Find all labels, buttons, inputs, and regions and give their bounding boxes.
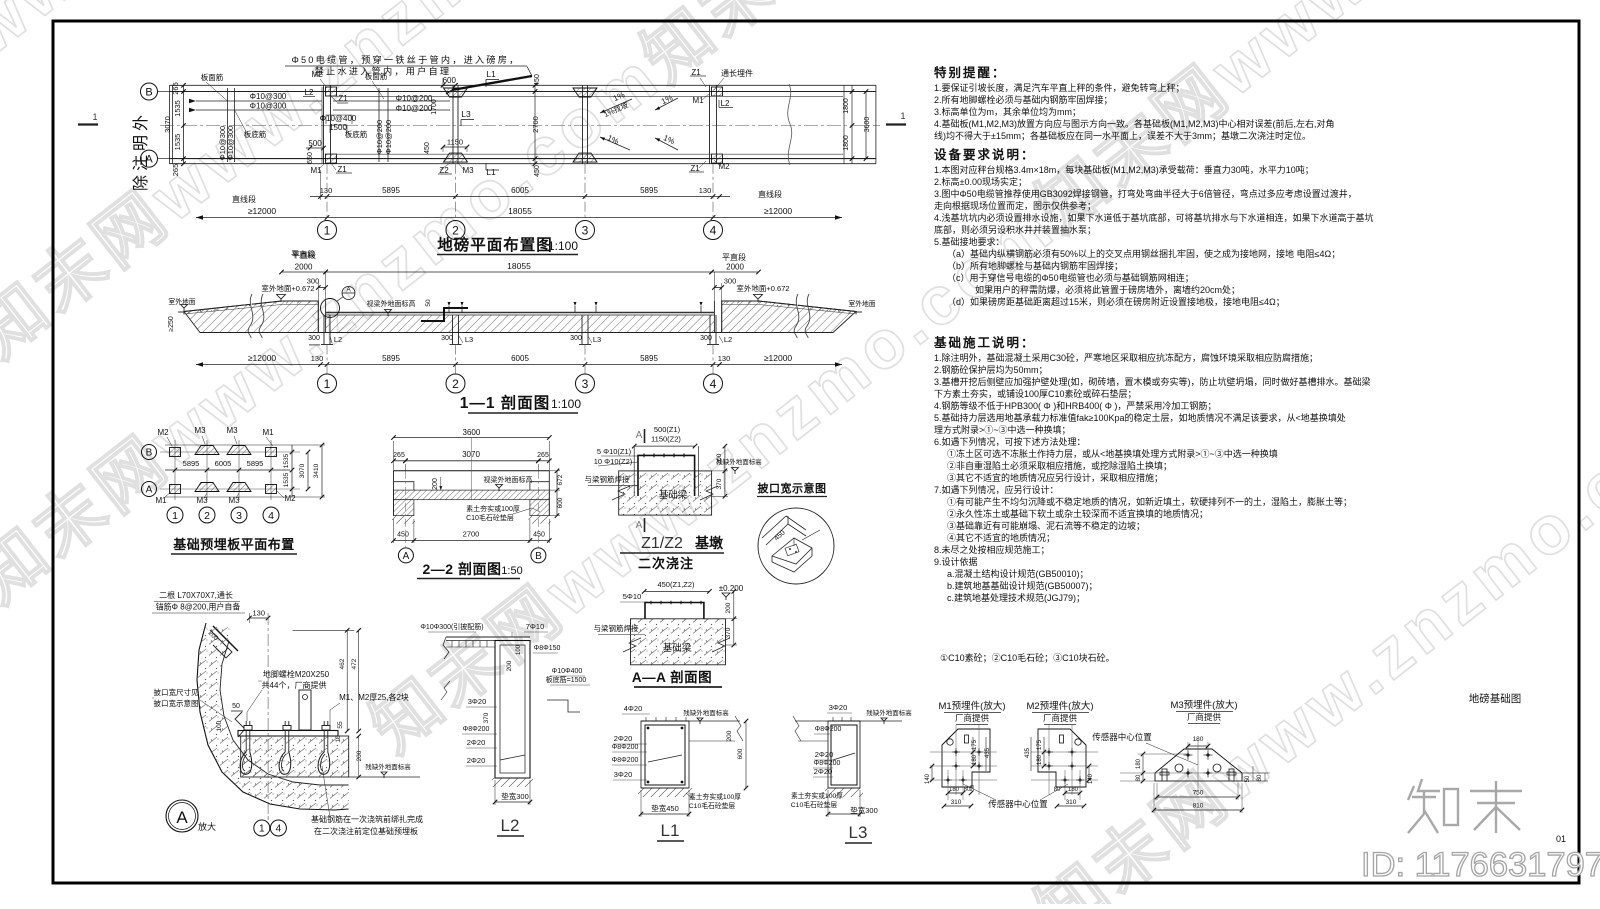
svg-text:1:50: 1:50 <box>501 565 522 577</box>
svg-text:3Φ20: 3Φ20 <box>614 770 633 779</box>
right ramp break lines <box>794 294 799 338</box>
svg-text:③其它不适宜的地质情况应另行设计，采取相应措施；: ③其它不适宜的地质情况应另行设计，采取相应措施； <box>947 472 1163 483</box>
svg-text:370: 370 <box>716 478 723 489</box>
svg-text:265: 265 <box>171 164 180 177</box>
svg-text:18055: 18055 <box>507 261 531 271</box>
svg-text:ID: 1176631797: ID: 1176631797 <box>1361 846 1600 884</box>
svg-text:M2预埋件(放大): M2预埋件(放大) <box>1026 700 1093 712</box>
svg-text:450: 450 <box>424 142 431 154</box>
svg-text:180: 180 <box>949 787 960 793</box>
svg-text:Φ10@300: Φ10@300 <box>226 126 235 160</box>
svg-text:残缺外地面标高: 残缺外地面标高 <box>365 762 411 771</box>
svg-text:200: 200 <box>726 730 733 741</box>
svg-text:走向根据现场位置而定，图示仅供参考；: 走向根据现场位置而定，图示仅供参考； <box>934 200 1096 211</box>
svg-text:视梁外地面标高: 视梁外地面标高 <box>484 475 533 484</box>
svg-text:底部，则必须另设积水井并装置抽水泵；: 底部，则必须另设积水井并装置抽水泵； <box>934 224 1096 235</box>
svg-text:130: 130 <box>252 609 265 618</box>
svg-text:5895: 5895 <box>247 459 264 468</box>
svg-text:C10毛石砼垫层: C10毛石砼垫层 <box>466 513 514 522</box>
svg-text:18055: 18055 <box>508 206 532 216</box>
svg-text:在二次浇注前定位基础预埋板: 在二次浇注前定位基础预埋板 <box>314 826 418 836</box>
svg-text:Z1: Z1 <box>338 94 348 103</box>
detail A 130 dim <box>249 617 268 619</box>
axis 1 cross beam <box>323 85 325 163</box>
svg-text:3070: 3070 <box>163 116 172 133</box>
svg-text:二次浇注: 二次浇注 <box>638 556 694 571</box>
right ramp <box>722 301 856 333</box>
2-2 bottom dim 450 2700 450 <box>394 540 550 542</box>
svg-text:50: 50 <box>232 703 240 710</box>
svg-text:50: 50 <box>1245 775 1251 782</box>
svg-text:基墩: 基墩 <box>695 535 724 551</box>
svg-text:L2: L2 <box>721 99 730 108</box>
svg-text:5895: 5895 <box>382 186 400 195</box>
svg-text:Φ10@400: Φ10@400 <box>320 114 357 123</box>
left ramp <box>184 301 318 333</box>
notch sketch 3d corner <box>762 516 806 538</box>
svg-text:1: 1 <box>259 824 265 835</box>
M3 bolt slots <box>1162 769 1167 781</box>
svg-text:M3: M3 <box>462 166 474 175</box>
right ramp surface concrete band <box>722 301 856 314</box>
svg-text:472: 472 <box>351 658 358 669</box>
svg-text:4: 4 <box>276 824 282 835</box>
svg-text:10: 10 <box>336 735 342 742</box>
svg-text:3Φ20: 3Φ20 <box>829 703 848 712</box>
M3 plate holes <box>1175 764 1183 772</box>
section cut marker 1 right <box>886 123 906 125</box>
svg-text:1150: 1150 <box>447 138 463 147</box>
plan bottom dim row1 <box>310 196 730 198</box>
axis 4 cross beam <box>709 85 711 163</box>
plate M3 axis2 top <box>444 88 468 97</box>
svg-text:通长埋件: 通长埋件 <box>721 68 753 78</box>
svg-text:Φ10@200: Φ10@200 <box>375 120 384 154</box>
svg-text:①C10素砼；②C10毛石砼；③C10块石砼。: ①C10素砼；②C10毛石砼；③C10块石砼。 <box>940 652 1115 663</box>
svg-text:L2: L2 <box>334 335 342 344</box>
svg-text:A—A 剖面图: A—A 剖面图 <box>632 669 712 685</box>
svg-text:≥250: ≥250 <box>168 316 175 332</box>
svg-text:（a）基础内纵横钢筋必须有50%以上的交叉点用钢丝捆扎牢固，: （a）基础内纵横钢筋必须有50%以上的交叉点用钢丝捆扎牢固，使之成为接地网，接地… <box>947 248 1340 259</box>
svg-text:Φ10@300: Φ10@300 <box>250 102 287 111</box>
svg-text:M2: M2 <box>284 494 296 503</box>
svg-text:Φ10@200: Φ10@200 <box>384 120 393 154</box>
svg-text:200: 200 <box>725 602 732 613</box>
svg-text:100: 100 <box>516 644 522 655</box>
M3 left dims 180 80 <box>1142 754 1144 781</box>
svg-text:5895: 5895 <box>183 459 200 468</box>
svg-text:M3: M3 <box>194 426 206 435</box>
svg-text:1: 1 <box>324 223 331 237</box>
svg-text:Φ10Φ400: Φ10Φ400 <box>552 668 583 675</box>
svg-text:175: 175 <box>972 739 978 750</box>
svg-text:4.钢筋等级不低于HPB300( Φ )和HRB400( Φ: 4.钢筋等级不低于HPB300( Φ )和HRB400( Φ )，严禁采用冷加工… <box>934 400 1216 411</box>
plate M3 axis3 bottom <box>573 153 597 162</box>
M3 bolt cross marks <box>1184 754 1193 756</box>
svg-text:A: A <box>146 485 153 496</box>
svg-text:C10毛石砼垫层: C10毛石砼垫层 <box>689 801 736 810</box>
svg-text:2Φ20: 2Φ20 <box>614 734 633 743</box>
svg-text:≥12000: ≥12000 <box>764 206 793 216</box>
svg-text:3Φ20: 3Φ20 <box>468 697 487 706</box>
plate plan right dims <box>291 445 293 497</box>
svg-text:③基础靠近有可能崩塌、泥石流等不稳定的边坡；: ③基础靠近有可能崩塌、泥石流等不稳定的边坡； <box>947 520 1145 531</box>
svg-text:130: 130 <box>311 354 324 363</box>
M2 centerlines <box>1031 751 1098 753</box>
svg-text:3600: 3600 <box>864 117 871 133</box>
2-2 soil under piers <box>392 516 415 524</box>
svg-text:Z1/Z2: Z1/Z2 <box>641 535 683 552</box>
svg-text:L2: L2 <box>724 335 732 344</box>
svg-text:130: 130 <box>320 186 333 195</box>
svg-text:9.设计依据: 9.设计依据 <box>934 556 978 567</box>
L2 wall <box>495 641 530 779</box>
svg-text:4Φ20: 4Φ20 <box>624 704 643 713</box>
svg-text:2700: 2700 <box>531 116 540 133</box>
svg-text:地脚螺栓M20X250: 地脚螺栓M20X250 <box>263 669 330 679</box>
svg-text:基础钢筋在一次浇筑前绑扎完成: 基础钢筋在一次浇筑前绑扎完成 <box>311 814 423 824</box>
rebar vertical lines panel1 <box>227 88 229 162</box>
svg-text:A: A <box>636 520 643 531</box>
svg-text:L2: L2 <box>501 816 520 835</box>
svg-text:4.浅基坑坑内必须设置排水设施，如果下水道低于基坑底部，可将: 4.浅基坑坑内必须设置排水设施，如果下水道低于基坑底部，可将基坑排水与下水道相连… <box>934 212 1374 223</box>
axis bubbles 1-4 plan <box>326 164 328 221</box>
section 300 dim left <box>318 287 325 289</box>
svg-text:B: B <box>145 86 152 98</box>
svg-text:传感器中心位置: 传感器中心位置 <box>988 799 1048 809</box>
svg-text:基础预埋板平面布置: 基础预埋板平面布置 <box>172 537 295 552</box>
svg-text:450(Z1,Z2): 450(Z1,Z2) <box>657 580 695 589</box>
detail A anchor bolts <box>245 721 247 752</box>
svg-text:1: 1 <box>900 111 905 121</box>
svg-text:180: 180 <box>1193 736 1204 743</box>
detail A right dims <box>293 629 355 631</box>
L3 bottom dim <box>828 813 860 815</box>
svg-text:M3: M3 <box>226 426 238 435</box>
axis B circle <box>141 83 158 100</box>
svg-text:5895: 5895 <box>640 354 658 363</box>
svg-text:M2: M2 <box>157 428 169 437</box>
anchor ticks on slab <box>448 306 450 313</box>
M3 top dim 180 <box>1188 745 1208 747</box>
svg-text:Φ10@200: Φ10@200 <box>396 104 433 113</box>
svg-text:80: 80 <box>1257 774 1263 781</box>
svg-text:2: 2 <box>204 510 210 522</box>
foundation bottom line <box>200 332 833 334</box>
plan bottom dim row2 <box>196 217 842 219</box>
svg-text:设备要求说明：: 设备要求说明： <box>934 147 1036 162</box>
svg-text:共44个，厂商提供: 共44个，厂商提供 <box>262 680 327 690</box>
svg-text:≥12000: ≥12000 <box>248 353 277 363</box>
svg-text:M1: M1 <box>262 428 274 437</box>
svg-text:与梁钢筋焊接: 与梁钢筋焊接 <box>594 623 639 633</box>
plan left dimension 265 1535 1535 265 <box>183 85 185 163</box>
svg-text:300: 300 <box>724 277 737 286</box>
svg-text:视梁外地面标高: 视梁外地面标高 <box>367 299 416 308</box>
slope arrows 1% panel3-4 <box>600 99 632 113</box>
detail A bubble on section <box>342 287 355 300</box>
svg-text:a.混凝土结构设计规范(GB50010)；: a.混凝土结构设计规范(GB50010)； <box>947 568 1089 579</box>
2-2 top dim 3600 <box>394 437 550 439</box>
svg-text:Φ8Φ150: Φ8Φ150 <box>534 645 561 652</box>
svg-text:地磅基础图: 地磅基础图 <box>1469 692 1522 705</box>
detail A anchor plate <box>238 731 338 737</box>
svg-text:披口宽示意图: 披口宽示意图 <box>758 481 827 495</box>
svg-text:厂商提供: 厂商提供 <box>955 713 990 723</box>
svg-text:180: 180 <box>1037 754 1043 765</box>
svg-text:1.要保证引坡长度，满足汽车平直上秤的条件，避免转弯上秤；: 1.要保证引坡长度，满足汽车平直上秤的条件，避免转弯上秤； <box>934 82 1185 93</box>
svg-text:1:100: 1:100 <box>551 397 581 411</box>
detail A wall hatch <box>197 623 349 809</box>
2-2 piers hatched <box>394 500 414 516</box>
svg-text:600: 600 <box>737 748 744 759</box>
svg-text:垫宽300: 垫宽300 <box>501 791 529 801</box>
svg-text:750: 750 <box>1193 790 1204 797</box>
svg-text:3.标高单位为m，其余单位均为mm；: 3.标高单位为m，其余单位均为mm； <box>934 106 1081 117</box>
svg-text:100: 100 <box>216 720 223 731</box>
plate plan grid <box>174 440 176 500</box>
svg-text:板底筋=1500: 板底筋=1500 <box>546 675 587 684</box>
svg-text:L1: L1 <box>661 821 680 840</box>
2-2 hatched band <box>394 490 550 500</box>
svg-text:L2: L2 <box>305 88 314 97</box>
svg-text:M3预埋件(放大): M3预埋件(放大) <box>1170 699 1237 711</box>
svg-text:3410: 3410 <box>313 463 320 478</box>
2-2 inner steps <box>394 482 414 490</box>
svg-text:300: 300 <box>308 335 320 342</box>
svg-text:500(Z1): 500(Z1) <box>654 425 681 434</box>
svg-text:2: 2 <box>452 223 459 237</box>
M3 plate outline <box>1155 749 1242 781</box>
Z1Z2 pedestal sides <box>633 446 635 496</box>
svg-text:650: 650 <box>307 152 314 164</box>
svg-text:与梁钢筋焊接: 与梁钢筋焊接 <box>585 474 630 484</box>
A-A 370 dim <box>733 619 735 645</box>
detail A center line <box>267 613 269 816</box>
svg-text:b.建筑地基基础设计规范(GB50007)；: b.建筑地基基础设计规范(GB50007)； <box>947 580 1098 591</box>
svg-text:3.基槽开挖后侧壁应加强护壁处理(如，砌砖墙，置木模或夯实等: 3.基槽开挖后侧壁应加强护壁处理(如，砌砖墙，置木模或夯实等)，防止坑壁坍塌，同… <box>934 376 1371 387</box>
svg-text:3.图中Φ50电缆管推荐使用GB3092焊接钢管，打弯处弯曲: 3.图中Φ50电缆管推荐使用GB3092焊接钢管，打弯处弯曲半径大于6倍管径，弯… <box>934 188 1357 199</box>
svg-text:175: 175 <box>1037 739 1043 750</box>
plate plan plates row B <box>170 448 181 457</box>
svg-text:基础梁: 基础梁 <box>659 489 688 501</box>
svg-text:±0.200: ±0.200 <box>719 584 744 593</box>
svg-text:265: 265 <box>537 452 549 459</box>
svg-text:L1: L1 <box>486 167 496 177</box>
M2 plate holes and marks <box>1075 739 1081 745</box>
svg-text:450: 450 <box>534 165 541 177</box>
svg-text:8.未尽之处按相应规范施工；: 8.未尽之处按相应规范施工； <box>934 544 1050 555</box>
svg-text:M2: M2 <box>718 162 730 171</box>
svg-text:6005: 6005 <box>511 186 529 195</box>
svg-text:（b）所有地脚螺栓与基础内钢筋牢固焊接；: （b）所有地脚螺栓与基础内钢筋牢固焊接； <box>947 260 1123 271</box>
svg-text:A: A <box>636 430 643 441</box>
Z1Z2 break marks <box>612 486 630 500</box>
svg-text:2Φ20: 2Φ20 <box>815 750 834 759</box>
svg-text:6.如遇下列情况，可按下述方法处理：: 6.如遇下列情况，可按下述方法处理： <box>934 436 1086 447</box>
svg-text:462: 462 <box>339 658 346 669</box>
detail A concrete block <box>241 736 349 777</box>
svg-text:直线段: 直线段 <box>758 189 782 199</box>
rebar line top panel1 <box>196 100 322 102</box>
2-2 outline <box>394 470 550 472</box>
svg-text:3: 3 <box>582 377 589 391</box>
svg-text:除注明外: 除注明外 <box>132 111 150 191</box>
svg-text:厂商提供: 厂商提供 <box>1187 712 1222 722</box>
M3 right dims 50 80 <box>1242 772 1268 774</box>
section columns <box>323 315 325 345</box>
svg-text:200: 200 <box>432 478 439 490</box>
detail A wall curve <box>197 623 349 810</box>
svg-text:4: 4 <box>710 223 717 237</box>
A-A 200 dim <box>733 591 735 618</box>
svg-text:素土夯实或100厚: 素土夯实或100厚 <box>466 504 520 513</box>
svg-text:2Φ20: 2Φ20 <box>814 767 833 776</box>
svg-text:M1: M1 <box>692 96 704 105</box>
L2 soil hatch <box>492 778 533 787</box>
svg-text:c.建筑地基处理技术规范(JGJ79)；: c.建筑地基处理技术规范(JGJ79)； <box>947 592 1085 603</box>
svg-text:600: 600 <box>557 497 564 508</box>
svg-text:C10毛石砼垫层: C10毛石砼垫层 <box>791 800 838 809</box>
svg-text:7.如遇下列情况，应另行设计：: 7.如遇下列情况，应另行设计： <box>934 484 1059 495</box>
svg-text:残缺外地面标高: 残缺外地面标高 <box>866 708 912 717</box>
svg-text:①冻土区可选不冻胀土作持力层，或从<地基换填处理方式附录>①: ①冻土区可选不冻胀土作持力层，或从<地基换填处理方式附录>①~③中选一种换填 <box>947 448 1278 459</box>
svg-text:A: A <box>346 287 351 294</box>
svg-text:残缺外地面标高: 残缺外地面标高 <box>683 708 729 717</box>
svg-text:①有可能产生不均匀沉降或不稳定地质的情况，如新近填土，软硬排: ①有可能产生不均匀沉降或不稳定地质的情况，如新近填土，软硬排列不一的土，湿陷土，… <box>947 496 1352 507</box>
svg-text:1—1 剖面图: 1—1 剖面图 <box>460 393 551 412</box>
L1 corner dots <box>647 727 650 730</box>
svg-text:2—2 剖面图: 2—2 剖面图 <box>423 561 502 577</box>
svg-text:300: 300 <box>441 335 453 342</box>
detail A guide pillar <box>299 690 311 730</box>
svg-text:L3: L3 <box>593 335 601 344</box>
plate M2 axis4 bottom <box>712 154 723 163</box>
detail A bubble <box>166 800 198 832</box>
znzmo logo outline <box>1408 779 1522 833</box>
L1 right extension ground <box>689 720 740 722</box>
svg-text:垫宽300: 垫宽300 <box>850 805 878 815</box>
svg-text:禁止水进入管内，用户自理: 禁止水进入管内，用户自理 <box>315 66 452 77</box>
svg-text:M1、M2厚25,各2块: M1、M2厚25,各2块 <box>339 692 409 702</box>
svg-text:1535: 1535 <box>173 134 182 151</box>
Z1Z2 right dims 200 370 <box>724 446 726 496</box>
svg-text:理方式附录>①~③中选一种换填；: 理方式附录>①~③中选一种换填； <box>934 424 1071 435</box>
pit walls <box>317 301 319 333</box>
cable pipe in section <box>421 308 468 321</box>
detail A axis bubbles 1 4 <box>254 820 270 836</box>
svg-text:如果用户的秤需防爆，必须将此管置于磅房墙外，离墙约20cm处: 如果用户的秤需防爆，必须将此管置于磅房墙外，离墙约20cm处； <box>975 284 1240 295</box>
svg-text:310: 310 <box>1066 799 1077 806</box>
plate M3 axis2 bottom <box>444 153 468 162</box>
M2 plate outline (mirror) <box>1038 729 1086 787</box>
svg-text:1150(Z2): 1150(Z2) <box>651 435 681 444</box>
svg-text:残缺外地面标高: 残缺外地面标高 <box>716 457 762 466</box>
left ramp break lines <box>248 294 253 338</box>
svg-text:1535: 1535 <box>283 472 290 487</box>
svg-text:M3: M3 <box>196 496 208 505</box>
svg-text:3: 3 <box>582 223 589 237</box>
M3 dim 750 <box>1157 796 1238 798</box>
M1 dims <box>972 737 974 766</box>
svg-text:素土夯实或100厚: 素土夯实或100厚 <box>689 792 741 801</box>
section 300 dim right <box>714 287 721 289</box>
svg-text:Φ8Φ200: Φ8Φ200 <box>463 726 490 733</box>
plate plan axis circles B A <box>142 445 157 460</box>
svg-text:200: 200 <box>506 660 513 671</box>
svg-text:（d）如果磅房距基础距离超过15米，则必须在磅房附近设置接地: （d）如果磅房距基础距离超过15米，则必须在磅房附近设置接地极，接地电阻≤4Ω； <box>947 296 1285 307</box>
svg-text:披口宽示意图: 披口宽示意图 <box>154 698 199 708</box>
L3 soil hatch <box>825 788 863 797</box>
rebar line bottom panel1 <box>196 109 322 111</box>
M1 plate outline <box>942 729 990 787</box>
svg-text:L3: L3 <box>849 823 868 842</box>
L1 soil hatch <box>638 788 692 797</box>
svg-text:1: 1 <box>92 112 97 122</box>
L1 600 dim right <box>745 721 747 788</box>
svg-text:6005: 6005 <box>215 459 232 468</box>
svg-text:平直段: 平直段 <box>292 250 316 260</box>
svg-text:265: 265 <box>393 452 405 459</box>
svg-text:B: B <box>146 448 153 459</box>
svg-text:600: 600 <box>443 76 457 85</box>
svg-text:2.标高±0.00现场实定；: 2.标高±0.00现场实定； <box>934 176 1027 187</box>
svg-text:④其它不适宜的地质情况；: ④其它不适宜的地质情况； <box>947 532 1055 543</box>
plan right approach slab lines <box>875 85 877 163</box>
notch sketch circle <box>758 508 834 584</box>
A-A top dim 450 <box>644 590 709 592</box>
svg-text:2000: 2000 <box>726 263 744 272</box>
svg-text:放大: 放大 <box>198 821 216 832</box>
svg-text:地磅平面布置图: 地磅平面布置图 <box>437 235 553 254</box>
svg-text:5895: 5895 <box>382 354 400 363</box>
svg-text:265: 265 <box>171 82 180 95</box>
svg-text:基础施工说明：: 基础施工说明： <box>933 335 1036 350</box>
detail A notch <box>235 712 245 737</box>
section cut marker 1 left <box>78 123 98 125</box>
svg-text:3: 3 <box>236 510 242 522</box>
svg-text:室外地面+0.672: 室外地面+0.672 <box>736 283 789 293</box>
svg-text:1800: 1800 <box>843 135 850 151</box>
svg-text:5.基础接地要求：: 5.基础接地要求： <box>934 236 1005 247</box>
2-2 axis bubbles A B <box>405 471 407 547</box>
A-A concrete beam <box>631 619 726 665</box>
svg-text:300: 300 <box>570 335 582 342</box>
plate plan plates row A <box>170 485 181 494</box>
svg-text:L3: L3 <box>461 109 471 119</box>
svg-text:Φ10@200: Φ10@200 <box>396 94 433 103</box>
svg-text:130: 130 <box>699 186 712 195</box>
svg-text:2.所有地脚螺栓必须与基础内钢筋牢固焊接；: 2.所有地脚螺栓必须与基础内钢筋牢固焊接； <box>934 94 1113 105</box>
platform slab <box>326 312 715 314</box>
svg-text:锚筋Φ 8@200,用户自备: 锚筋Φ 8@200,用户自备 <box>156 602 241 612</box>
svg-text:2000: 2000 <box>295 263 313 272</box>
svg-text:厂商提供: 厂商提供 <box>1043 713 1078 723</box>
axis A circle <box>141 150 158 167</box>
foundation band hatch <box>326 315 715 333</box>
svg-text:Φ10Φ300(引披配筋): Φ10Φ300(引披配筋) <box>420 622 483 631</box>
svg-text:3070: 3070 <box>299 463 306 478</box>
2-2 dim 265 3070 265 <box>394 460 406 462</box>
axis 3 cross beam <box>582 85 584 163</box>
M2 dims <box>1030 737 1032 771</box>
svg-text:2Φ20: 2Φ20 <box>467 756 486 765</box>
plate M2 axis1 top <box>326 87 337 96</box>
L2 top slab <box>446 636 530 638</box>
detail A angle steel <box>213 626 238 651</box>
2-2 right dims 672 600 <box>556 471 558 516</box>
M3 centerlines <box>1120 772 1270 774</box>
